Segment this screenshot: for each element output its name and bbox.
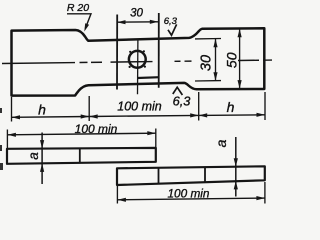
svg-text:100 min: 100 min [168, 187, 210, 201]
dimension 100 min (row2) [7, 133, 155, 135]
short inner line (gauge mark) [138, 76, 160, 79]
hole [129, 51, 146, 68]
dimension a (strip1) [41, 133, 43, 185]
axis center line [2, 60, 272, 63]
gauge transition line left [116, 15, 118, 90]
row2 extension lines [6, 130, 8, 149]
strip1 division [79, 148, 81, 162]
dimension 30 (top) [117, 20, 158, 25]
dimension h (right) [199, 114, 265, 117]
hole rim nubs [129, 51, 131, 53]
dimension 100 min (row1) [89, 115, 199, 116]
dimension 100 min (row3) [117, 198, 265, 200]
svg-text:100 min: 100 min [117, 100, 162, 114]
svg-text:R 20: R 20 [67, 2, 89, 14]
row1 extension lines [12, 92, 266, 122]
surface finish 6,3 (bottom) [173, 87, 183, 95]
dimension 30 (right vertical) [195, 39, 221, 82]
side view strip 2 [117, 166, 265, 185]
svg-text:100 min: 100 min [75, 122, 118, 136]
svg-text:h: h [38, 102, 46, 118]
dimension 50 (right vertical) [239, 29, 241, 89]
specimen outline (top view, dumbbell) [12, 28, 265, 95]
strip2 division 2 [204, 167, 206, 183]
scan marks left edge [0, 108, 2, 113]
side view strip 1 [7, 148, 156, 164]
gauge transition line right [158, 13, 160, 88]
svg-text:30: 30 [199, 55, 215, 71]
strip2 division 1 [158, 168, 160, 184]
hole center line [137, 39, 139, 94]
svg-text:h: h [227, 99, 235, 115]
svg-text:a: a [213, 139, 229, 147]
row3 extension lines [116, 186, 118, 204]
dimension a (strip2) [235, 137, 237, 197]
svg-text:30: 30 [130, 8, 143, 20]
svg-text:6,3: 6,3 [173, 94, 191, 109]
svg-text:a: a [26, 152, 41, 160]
dimension h (left) [12, 116, 90, 119]
svg-text:50: 50 [224, 52, 240, 68]
